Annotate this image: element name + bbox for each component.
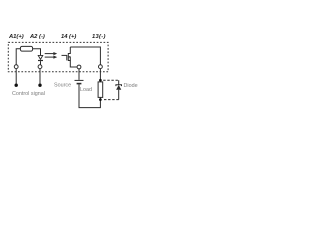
terminal circle 13 [99,65,103,69]
resistor R1 [20,46,32,51]
MOSFET Q1 gate plate [66,55,68,60]
LED D1 [38,55,43,60]
svg-text:13(-): 13(-) [92,34,106,40]
control dot A2 [38,84,41,87]
MOSFET Q1 drain stub [68,47,70,54]
wire drain to terminal 13 [70,47,100,65]
junction dot bottom [99,98,102,101]
svg-text:A1(+): A1(+) [8,34,24,40]
svg-text:14 (+): 14 (+) [61,34,76,40]
SSR dashed enclosure [8,42,108,71]
svg-text:Control signal: Control signal [12,91,45,97]
svg-text:Source: Source [54,82,71,88]
diode top lead [118,80,120,85]
MOSFET Q1 gate lead [62,54,67,56]
svg-text:A2 (-): A2 (-) [29,34,45,40]
control dot A1 [15,84,18,87]
terminal circle A1 [14,65,18,69]
svg-text:Load: Load [80,87,92,93]
lead load bottom [99,97,101,99]
diode D2 zener bar [116,85,122,86]
MOSFET Q1 source stub [68,61,77,68]
wire A1 terminal to resistor [16,49,20,65]
lead below A1 [15,69,17,84]
lead below A2 [39,69,41,84]
battery source plate long [75,79,84,81]
load resistor [98,82,103,98]
wire LED to A2 terminal [40,61,42,65]
svg-text:Diode: Diode [124,83,138,89]
battery source plate short [77,83,82,85]
MOSFET right vertical [69,57,71,61]
MOSFET Q1 body arrow [69,56,71,58]
light emission arrow upper [45,53,54,55]
light emission arrow lower [45,56,54,58]
MOSFET Q1 channel [67,53,69,61]
junction dot top [99,79,102,82]
dashed wire diode bottom [103,99,119,101]
diode bottom lead [118,90,120,100]
wire resistor to LED [33,49,41,56]
wire battery to bottom to load bottom [79,84,100,107]
terminal circle 14 [77,65,81,69]
terminal circle A2 [38,65,42,69]
lead 13 down [99,69,101,82]
lead 14 to battery [78,69,80,80]
dashed wire to diode top [103,79,119,81]
diode D2 triangle [116,85,121,90]
